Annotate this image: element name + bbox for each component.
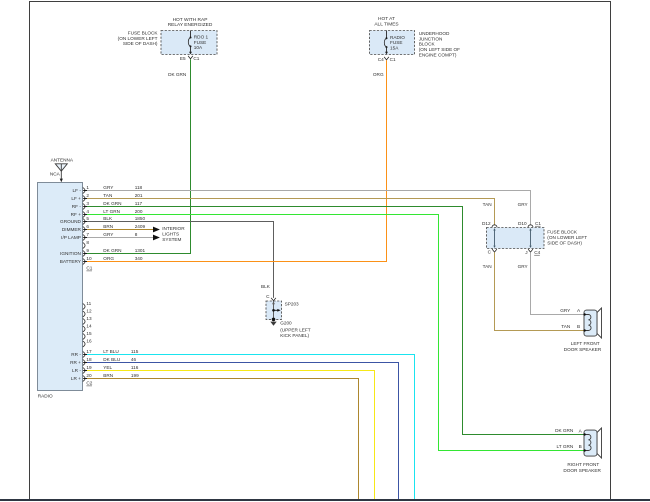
svg-text:GRY: GRY (518, 264, 529, 269)
speaker horn (597, 428, 602, 458)
pin A dot (583, 313, 585, 315)
label GRY 118 (103, 185, 142, 190)
connector C4 / C1 below junction block (378, 57, 396, 62)
wire BLK 1850 pin5 to splice SP203 (87, 222, 274, 298)
radio pin 8 (83, 240, 90, 249)
svg-text:ORG: ORG (103, 256, 114, 261)
fuse block side label (547, 230, 587, 246)
svg-text:GRY: GRY (103, 185, 114, 190)
wire lead pin 2 (83, 198, 88, 200)
speaker coil (585, 435, 591, 451)
svg-text:115: 115 (131, 349, 139, 354)
speaker body (584, 430, 597, 456)
svg-text:13: 13 (86, 316, 92, 321)
wire GRY 118 pin1 to fuse block D10 (87, 191, 531, 226)
radio pin 10 (60, 256, 92, 265)
svg-text:GRY: GRY (518, 202, 529, 207)
wire lead pin 10 (83, 261, 88, 263)
svg-text:RELAY ENERGIZED: RELAY ENERGIZED (168, 22, 213, 28)
wire lead pin 18 (83, 362, 88, 364)
label BRN 2409 (103, 224, 145, 229)
wire lead pin 3 (83, 206, 88, 208)
svg-text:7: 7 (86, 232, 89, 237)
svg-text:SIDE OF DASH): SIDE OF DASH) (547, 241, 582, 246)
svg-text:TAN: TAN (483, 264, 492, 269)
radio pin 13 (83, 316, 92, 325)
svg-text:FUSE BLOCK: FUSE BLOCK (128, 30, 159, 35)
svg-text:340: 340 (135, 256, 143, 261)
svg-text:(ON LOWER LEFT: (ON LOWER LEFT (547, 235, 587, 240)
svg-text:DOOR SPEAKER: DOOR SPEAKER (564, 347, 602, 352)
svg-text:INTERIOR: INTERIOR (162, 226, 185, 231)
svg-text:18: 18 (86, 357, 92, 362)
svg-text:SIDE OF DASH): SIDE OF DASH) (123, 41, 158, 46)
svg-text:ENGINE COMPT): ENGINE COMPT) (419, 53, 457, 58)
svg-text:GRY: GRY (103, 232, 114, 237)
radio pin 7 (61, 232, 89, 241)
radio pin 2 (71, 193, 89, 202)
svg-text:10: 10 (86, 256, 92, 261)
svg-text:117: 117 (135, 201, 143, 206)
radio pin 12 (83, 308, 92, 317)
svg-text:LF -: LF - (73, 188, 82, 193)
pin B dot (583, 329, 585, 331)
left front door speaker (583, 308, 601, 338)
svg-text:19: 19 (86, 365, 92, 370)
svg-text:C2: C2 (86, 381, 92, 386)
svg-text:C4: C4 (378, 57, 384, 62)
svg-text:BRN: BRN (103, 224, 113, 229)
radio pin 9 (60, 248, 89, 257)
radio box (38, 183, 83, 391)
label GRY 8 (103, 232, 137, 237)
label G200 (upper left kick panel) (280, 320, 311, 338)
connector arc D12 top (492, 225, 497, 227)
wire lead pin 5 (83, 221, 88, 223)
svg-text:1301: 1301 (135, 248, 146, 253)
svg-text:199: 199 (131, 373, 139, 378)
wire GRY fuse block to left front door speaker A (531, 252, 584, 314)
svg-text:8: 8 (86, 240, 89, 245)
speaker body (584, 310, 597, 336)
arrow interior lights (bottom) (153, 235, 160, 241)
svg-text:C1: C1 (535, 221, 541, 226)
svg-text:BLOCK: BLOCK (419, 42, 436, 47)
svg-text:RF +: RF + (71, 212, 82, 217)
svg-text:BLK: BLK (103, 216, 113, 221)
wire DK GRN vertical from fuse to pin 9 row (190, 59, 192, 253)
svg-text:BLK: BLK (261, 284, 271, 289)
svg-text:DK GRN: DK GRN (103, 248, 121, 253)
node INTERIOR LIGHTS SYSTEM (162, 226, 185, 242)
wire DK GRN 1301 pin9 (joins vertical from fuse E5) (87, 253, 191, 255)
wire TAN 201 pin2 to fuse block D12 (87, 199, 495, 226)
svg-text:46: 46 (131, 357, 137, 362)
svg-text:3: 3 (86, 201, 89, 206)
speaker coil (585, 315, 591, 331)
svg-text:2: 2 (86, 193, 89, 198)
radio pin 17 (71, 349, 92, 358)
svg-text:NCA: NCA (50, 172, 61, 177)
radio pin 19 (72, 365, 92, 374)
bottom page edge bar (0, 499, 650, 501)
fuse RDO 1 10A (188, 31, 208, 55)
svg-text:BATTERY: BATTERY (60, 259, 82, 264)
speaker horn (597, 308, 602, 338)
label DK BLU 46 (103, 357, 136, 362)
svg-text:5: 5 (86, 216, 89, 221)
wire ORG vertical from junction block down to battery row (386, 60, 388, 261)
connector C1 label (86, 266, 92, 271)
radio pin 5 (60, 216, 89, 225)
radio pin 6 (62, 224, 90, 233)
wire DK BLU 46 pin18 to bottom (87, 363, 399, 500)
svg-text:B: B (577, 324, 580, 329)
svg-text:LF +: LF + (71, 196, 81, 201)
svg-text:DIMMER: DIMMER (62, 227, 82, 232)
wire LT BLU 115 pin17 to bottom (87, 355, 415, 500)
wire lead pin 6 (83, 229, 88, 231)
svg-text:DK BLU: DK BLU (103, 357, 121, 362)
fuse block label (118, 30, 159, 46)
svg-text:C1: C1 (86, 266, 92, 271)
label ORG 340 (103, 256, 143, 261)
svg-text:BRN: BRN (103, 373, 113, 378)
wire lead pin 7 (83, 237, 88, 239)
svg-text:GROUND: GROUND (60, 219, 81, 224)
svg-text:DK GRN: DK GRN (168, 72, 186, 77)
underhood junction block dashed box (370, 31, 415, 55)
fuse block (lower left of dash) dashed box (487, 228, 545, 249)
svg-text:8: 8 (135, 232, 138, 237)
right front door speaker (583, 428, 601, 458)
svg-text:LR +: LR + (71, 376, 81, 381)
svg-text:ALL TIMES: ALL TIMES (374, 22, 398, 28)
svg-text:SP203: SP203 (285, 302, 299, 307)
svg-text:LEFT FRONT: LEFT FRONT (571, 341, 600, 346)
svg-text:C4: C4 (534, 250, 540, 255)
label TAN 201 (103, 193, 143, 198)
wire lead pin 1 (83, 190, 88, 192)
wire lead pin 4 (83, 214, 88, 216)
wire lead pin 20 (83, 378, 88, 380)
fuse RADIO 15A (384, 31, 405, 55)
svg-text:16: 16 (86, 338, 92, 343)
svg-text:IGNITION: IGNITION (60, 251, 81, 256)
wire ORG 340 pin10 (joins vertical from junction block C4) (87, 261, 387, 263)
svg-text:D10: D10 (518, 221, 527, 226)
svg-text:I/P LAMP: I/P LAMP (61, 235, 81, 240)
label DK GRN 1301 (103, 248, 145, 253)
svg-text:LR -: LR - (72, 368, 81, 373)
svg-text:YEL: YEL (103, 365, 112, 370)
svg-text:GRY: GRY (560, 308, 571, 313)
radio pin 18 (70, 357, 92, 366)
svg-text:200: 200 (135, 209, 143, 214)
splice junction dot with branch arrow (272, 309, 275, 312)
svg-text:RADIO: RADIO (38, 394, 53, 399)
svg-text:TAN: TAN (483, 202, 492, 207)
svg-text:B: B (579, 444, 582, 449)
svg-text:10A: 10A (194, 45, 203, 50)
wire lead pin 9 (83, 253, 88, 255)
svg-text:TAN: TAN (103, 193, 112, 198)
svg-text:C1: C1 (390, 57, 396, 62)
svg-text:ANTENNA: ANTENNA (51, 158, 74, 163)
svg-text:LT GRN: LT GRN (103, 209, 120, 214)
connector arc D10 top (528, 225, 533, 227)
svg-text:HOT AT: HOT AT (378, 16, 395, 22)
svg-text:JUNCTION: JUNCTION (419, 36, 443, 41)
radio pin 14 (83, 323, 92, 332)
svg-text:J: J (525, 250, 527, 255)
svg-text:C1: C1 (193, 56, 199, 61)
label BRN 199 (103, 373, 139, 378)
svg-text:UNDERHOOD: UNDERHOOD (419, 31, 450, 36)
svg-text:15A: 15A (390, 45, 399, 50)
label DK GRN 117 (103, 201, 142, 206)
connector C2 label (86, 381, 92, 386)
svg-text:12: 12 (86, 308, 92, 313)
svg-text:ORG: ORG (373, 72, 384, 77)
svg-text:2409: 2409 (135, 224, 146, 229)
wire GRY 8 pin7 to interior lights system arrow (87, 237, 153, 239)
svg-text:(ON LEFT SIDE OF: (ON LEFT SIDE OF (419, 47, 460, 52)
double arrow (gry path) inside fuse block (529, 228, 531, 248)
splice wire entry arrow (272, 301, 275, 304)
svg-text:201: 201 (135, 193, 143, 198)
svg-text:15: 15 (86, 331, 92, 336)
arrow interior lights (top) (153, 227, 160, 233)
svg-text:RF -: RF - (72, 204, 82, 209)
radio pin 11 (83, 301, 92, 310)
svg-text:9: 9 (86, 248, 89, 253)
svg-text:LT BLU: LT BLU (103, 349, 119, 354)
wire BRN 199 pin20 to bottom (87, 379, 359, 500)
connector E5 / C1 below fuse block (180, 56, 200, 61)
svg-text:DK GRN: DK GRN (103, 201, 121, 206)
svg-text:11: 11 (86, 301, 91, 306)
wire LT GRN 200 pin4 to right front door speaker B (87, 215, 584, 451)
svg-text:1: 1 (86, 185, 89, 190)
svg-text:6: 6 (86, 224, 89, 229)
svg-text:14: 14 (86, 323, 92, 328)
svg-text:LT GRN: LT GRN (557, 444, 574, 449)
svg-text:(ON LOWER LEFT: (ON LOWER LEFT (118, 36, 158, 41)
svg-text:17: 17 (86, 349, 92, 354)
svg-text:1850: 1850 (135, 216, 146, 221)
radio pin 1 (73, 185, 90, 194)
pin B dot (583, 449, 585, 451)
svg-text:TAN: TAN (561, 324, 570, 329)
pin A dot (583, 433, 585, 435)
svg-text:KICK PANEL): KICK PANEL) (280, 333, 309, 338)
radio pin 20 (71, 373, 92, 382)
svg-text:FUSE BLOCK: FUSE BLOCK (547, 230, 578, 235)
double arrow (tan path) inside fuse block (493, 228, 495, 248)
wire TAN fuse block to left front door speaker B (495, 252, 584, 330)
antenna (50, 158, 74, 183)
wire YEL 116 pin19 to bottom (87, 371, 375, 500)
radio pin 16 (83, 338, 92, 347)
svg-text:RIGHT FRONT: RIGHT FRONT (567, 462, 599, 467)
svg-text:20: 20 (86, 373, 92, 378)
svg-text:118: 118 (135, 185, 143, 190)
svg-text:(UPPER LEFT: (UPPER LEFT (280, 327, 311, 332)
radio pin 15 (83, 331, 92, 340)
radio pin 3 (72, 201, 90, 210)
fuse block (on lower left side of dash) dashed box (161, 31, 217, 55)
wire lead pin 17 (83, 354, 88, 356)
label BLK 1850 (103, 216, 145, 221)
svg-text:RR +: RR + (70, 360, 81, 365)
svg-text:4: 4 (86, 209, 89, 214)
svg-text:SYSTEM: SYSTEM (162, 237, 181, 242)
wire lead pin 19 (83, 370, 88, 372)
svg-text:LIGHTS: LIGHTS (162, 232, 179, 237)
node HOT AT ALL TIMES label (374, 16, 398, 28)
label YEL 116 (103, 365, 138, 370)
node HOT WITH RAP label (168, 17, 213, 28)
radio pin 4 (71, 209, 90, 218)
svg-text:G200: G200 (280, 320, 292, 325)
label RIGHT FRONT DOOR SPEAKER (563, 462, 601, 473)
svg-text:E5: E5 (180, 56, 186, 61)
label LT BLU 115 (103, 349, 138, 354)
wire BRN 2409 pin6 to interior lights system arrow (87, 229, 153, 231)
label LEFT FRONT DOOR SPEAKER (564, 341, 602, 352)
svg-text:DK GRN: DK GRN (555, 428, 573, 433)
wire BLK through splice to ground (273, 301, 275, 320)
svg-text:RR -: RR - (71, 352, 81, 357)
wire DK GRN 117 pin3 to right front door speaker A (87, 207, 584, 435)
svg-text:DOOR SPEAKER: DOOR SPEAKER (563, 468, 601, 473)
underhood junction block label (419, 31, 460, 58)
svg-text:116: 116 (131, 365, 139, 370)
svg-text:D12: D12 (482, 221, 491, 226)
splice SP203 dashed box (266, 301, 282, 319)
label C1 (underlined) (535, 221, 541, 226)
label LT GRN 200 (103, 209, 143, 214)
ground G200 (272, 318, 276, 322)
